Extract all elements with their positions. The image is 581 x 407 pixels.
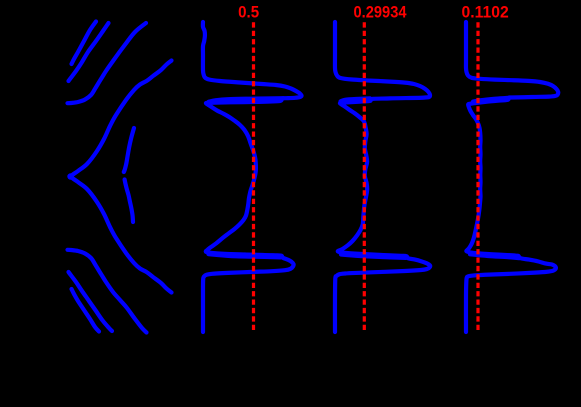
profile t1 upper-spike doubled line <box>209 98 284 102</box>
contour arc T1 (upper-left short) <box>72 22 97 65</box>
profile curve t1 (first cut) <box>203 22 302 332</box>
profile t3 upper-spike doubled line <box>473 98 508 102</box>
profile t2 lower-spike doubled line <box>341 255 406 258</box>
profile t3 lower-spike doubled line <box>470 254 519 258</box>
profile t1 lower-spike doubled line <box>209 254 282 257</box>
main wedge W1 (large left-pointing) <box>72 61 172 293</box>
svg-text:0.1102: 0.1102 <box>462 3 509 22</box>
inner wedge W2 lower branch <box>125 180 133 223</box>
red dashed cut line 1 (x for 0.5) <box>252 22 255 331</box>
contour arc T3 (upper-left long) <box>68 23 147 103</box>
contour arc B2 (lower-left middle) <box>69 272 113 331</box>
red dashed cut line 2 (x for 0.29934) <box>363 22 366 331</box>
profile curve t2 (second cut) <box>335 22 430 332</box>
wedge W1 apex knob <box>67 173 73 179</box>
inner wedge W2 upper branch <box>124 128 134 172</box>
contour arc B1 (lower-left long) <box>68 250 147 333</box>
red dashed cut line 3 (x for 0.1102) <box>476 22 479 331</box>
svg-text:0.29934: 0.29934 <box>354 3 407 22</box>
profile curve t3 (third cut) <box>466 22 558 332</box>
profile t2 upper-spike doubled line <box>341 98 371 101</box>
contour arc B3 (lower-left short) <box>72 289 100 332</box>
contour arc T2 (upper-left middle) <box>69 23 109 81</box>
svg-text:0.5: 0.5 <box>238 3 259 22</box>
